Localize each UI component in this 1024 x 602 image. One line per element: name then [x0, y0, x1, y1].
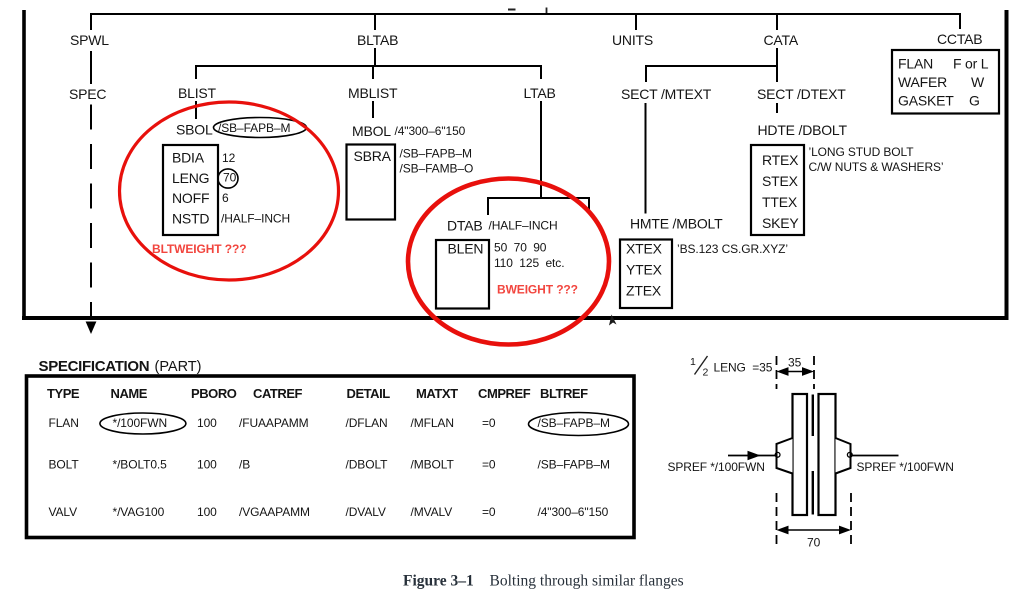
box SBRA	[347, 145, 396, 220]
svg-text:2: 2	[703, 367, 709, 379]
svg-text:100: 100	[197, 458, 217, 472]
arrow below box	[86, 322, 97, 335]
ellipse around /SB-FAPB-M	[214, 118, 307, 138]
svg-text:ZTEX: ZTEX	[626, 283, 662, 299]
svg-text:100: 100	[197, 505, 217, 519]
svg-text:SPEC: SPEC	[69, 86, 106, 102]
svg-text:BWEIGHT ???: BWEIGHT ???	[497, 283, 578, 297]
svg-text:100: 100	[197, 416, 217, 430]
big enclosing box left edge	[22, 10, 26, 318]
left hub trapezoid	[777, 438, 793, 474]
svg-text:35: 35	[788, 356, 802, 370]
wire MBLIST to MBOL	[372, 101, 374, 118]
dim 70 extension lines dashed	[776, 493, 778, 545]
svg-text:SECT /DTEXT: SECT /DTEXT	[757, 86, 846, 102]
svg-text:*/VAG100: */VAG100	[113, 505, 165, 519]
gasket bolt line upper	[812, 395, 814, 437]
svg-text:NOFF: NOFF	[172, 190, 209, 206]
box XTEX/YTEX/ZTEX	[620, 240, 672, 309]
svg-text:=0: =0	[482, 458, 496, 472]
svg-text:’BS.123 CS.GR.XYZ’: ’BS.123 CS.GR.XYZ’	[677, 242, 788, 256]
svg-text:CCTAB: CCTAB	[937, 31, 982, 47]
wire LTAB long drop	[540, 101, 542, 198]
svg-text:/FUAAPAMM: /FUAAPAMM	[239, 416, 309, 430]
box CCTAB key	[892, 50, 999, 114]
svg-text:FLAN: FLAN	[898, 56, 933, 72]
svg-text:1: 1	[690, 356, 696, 368]
stray tick artifact top	[546, 8, 548, 14]
svg-text:BLTWEIGHT ???: BLTWEIGHT ???	[152, 242, 246, 256]
svg-text:UNITS: UNITS	[612, 32, 653, 48]
svg-text:SECT /MTEXT: SECT /MTEXT	[621, 86, 712, 102]
svg-text:BLTREF: BLTREF	[540, 386, 588, 401]
wire SPEC dashed down	[90, 105, 92, 317]
wire drop MBLIST	[372, 66, 374, 79]
right leader line	[851, 455, 899, 457]
table box	[27, 376, 635, 538]
svg-text:HMTE /MBOLT: HMTE /MBOLT	[630, 216, 723, 232]
svg-text:SBOL: SBOL	[176, 122, 213, 138]
svg-text:/4"300–6"150: /4"300–6"150	[538, 505, 609, 519]
svg-text:=0: =0	[482, 505, 496, 519]
svg-text:DETAIL: DETAIL	[347, 386, 391, 401]
svg-text:F or L: F or L	[953, 56, 989, 72]
box RTEX/STEX/TTEX/SKEY	[751, 145, 804, 235]
svg-text:SPREF */100FWN: SPREF */100FWN	[857, 460, 954, 474]
svg-text:/DFLAN: /DFLAN	[346, 416, 388, 430]
svg-text:SPECIFICATION: SPECIFICATION	[39, 358, 150, 375]
wire SPWL to SPEC dashed	[90, 51, 92, 84]
wire BLIST to SBOL	[195, 101, 197, 119]
box BLEN	[436, 240, 489, 309]
stray dash artifact top	[508, 9, 516, 11]
svg-text:BLEN: BLEN	[448, 241, 484, 257]
svg-text:BOLT: BOLT	[49, 458, 80, 472]
svg-text:/HALF–INCH: /HALF–INCH	[489, 219, 558, 233]
svg-text:(PART): (PART)	[155, 359, 202, 375]
wire DTEXT to HDTE	[776, 103, 778, 113]
svg-text:/SB–FAPB–M: /SB–FAPB–M	[538, 458, 610, 472]
dim 35 extension lines dashed	[776, 356, 778, 389]
svg-text:VALV: VALV	[49, 505, 78, 519]
svg-text:SPREF */100FWN: SPREF */100FWN	[668, 460, 765, 474]
svg-text:/SB–FAPB–M: /SB–FAPB–M	[218, 121, 290, 135]
svg-text:BLTAB: BLTAB	[357, 32, 398, 48]
svg-text:BDIA: BDIA	[172, 150, 205, 166]
top rail wire	[91, 14, 960, 30]
svg-text:/SB–FAPB–M: /SB–FAPB–M	[538, 416, 610, 430]
ellipse around */100FWN	[100, 413, 186, 434]
svg-text:/HALF–INCH: /HALF–INCH	[221, 212, 290, 226]
svg-text:CATREF: CATREF	[253, 386, 303, 401]
svg-text:FLAN: FLAN	[49, 416, 79, 430]
svg-text:SBRA: SBRA	[354, 148, 392, 164]
svg-text:CMPREF: CMPREF	[478, 386, 531, 401]
svg-text:RTEX: RTEX	[762, 152, 799, 168]
wire MTEXT to HMTE long	[645, 103, 647, 214]
svg-text:Bolting through similar flange: Bolting through similar flanges	[490, 573, 684, 590]
svg-text:BLIST: BLIST	[178, 85, 217, 101]
attribute box BDIA/LENG/NOFF/NSTD	[163, 145, 218, 235]
svg-text:6: 6	[222, 191, 229, 205]
svg-text:/SB–FAPB–M: /SB–FAPB–M	[400, 147, 472, 161]
wire drop CATA	[776, 14, 778, 30]
svg-text:TTEX: TTEX	[762, 194, 798, 210]
flange drawing: half-length label	[695, 356, 708, 375]
right hub trapezoid	[836, 438, 851, 474]
svg-text:PBORO: PBORO	[191, 386, 237, 401]
left bolt circle	[775, 452, 780, 457]
svg-text:70: 70	[223, 171, 237, 185]
right flange plate	[819, 394, 836, 515]
svg-text:SKEY: SKEY	[762, 215, 799, 231]
svg-text:50 70 90: 50 70 90	[494, 241, 547, 255]
svg-text:/DVALV: /DVALV	[346, 505, 386, 519]
red circle 2	[408, 179, 609, 345]
dim 35 arrows	[779, 371, 812, 373]
svg-text:NSTD: NSTD	[172, 211, 209, 227]
svg-text:/4"300–6"150: /4"300–6"150	[395, 124, 466, 138]
svg-text:C/W NUTS & WASHERS’: C/W NUTS & WASHERS’	[809, 160, 944, 174]
circle around 70	[218, 169, 238, 188]
svg-text:=0: =0	[482, 416, 496, 430]
svg-text:*/100FWN: */100FWN	[113, 416, 168, 430]
left leader line with arrow	[728, 455, 776, 457]
svg-text:/SB–FAMB–O: /SB–FAMB–O	[400, 162, 474, 176]
svg-text:NAME: NAME	[111, 386, 148, 401]
svg-text:MATXT: MATXT	[416, 386, 458, 401]
svg-text:12: 12	[222, 151, 236, 165]
svg-text:STEX: STEX	[762, 173, 799, 189]
svg-text:70: 70	[807, 536, 821, 550]
dim 70 arrows	[779, 529, 849, 531]
svg-text:MBLIST: MBLIST	[348, 85, 398, 101]
svg-text:YTEX: YTEX	[626, 262, 663, 278]
red circle 1	[120, 102, 339, 280]
gasket bolt line lower	[812, 471, 814, 515]
left flange plate	[793, 394, 808, 515]
svg-text:HDTE /DBOLT: HDTE /DBOLT	[758, 122, 848, 138]
svg-text:LENG =35: LENG =35	[714, 361, 773, 375]
svg-text:GASKET: GASKET	[898, 93, 954, 109]
svg-text:W: W	[971, 74, 985, 90]
svg-text:/DBOLT: /DBOLT	[346, 458, 389, 472]
big enclosing box right edge	[1005, 10, 1009, 318]
svg-text:/MVALV: /MVALV	[411, 505, 453, 519]
rail2 wire BLIST-MBLIST-LTAB	[196, 66, 541, 79]
svg-text:*/BOLT0.5: */BOLT0.5	[113, 458, 168, 472]
wire elbow under LTAB	[488, 198, 589, 215]
svg-text:/VGAAPAMM: /VGAAPAMM	[239, 505, 310, 519]
svg-text:G: G	[969, 93, 980, 109]
right bolt circle	[847, 452, 852, 457]
svg-text:LTAB: LTAB	[524, 85, 556, 101]
svg-text:Figure 3–1: Figure 3–1	[403, 573, 474, 590]
svg-text:/B: /B	[239, 458, 250, 472]
svg-text:WAFER: WAFER	[898, 74, 947, 90]
big enclosing box bottom edge	[22, 316, 1009, 320]
wire BLTAB down to rail2	[374, 48, 376, 66]
wire CATA down	[776, 48, 778, 66]
svg-text:’LONG STUD BOLT: ’LONG STUD BOLT	[809, 145, 915, 159]
svg-text:/MFLAN: /MFLAN	[411, 416, 454, 430]
svg-text:/MBOLT: /MBOLT	[411, 458, 455, 472]
svg-text:SPWL: SPWL	[70, 32, 109, 48]
svg-text:LENG: LENG	[172, 170, 209, 186]
svg-text:MBOL: MBOL	[352, 123, 391, 139]
wire drop UNITS	[635, 14, 637, 30]
wire drop BLTAB	[374, 14, 376, 30]
svg-text:TYPE: TYPE	[47, 386, 80, 401]
rail3 wire under CATA	[646, 66, 777, 82]
cursor artifact on bottom edge	[609, 315, 617, 326]
svg-text:110 125 etc.: 110 125 etc.	[494, 256, 564, 270]
svg-text:DTAB: DTAB	[447, 218, 483, 234]
svg-text:CATA: CATA	[764, 32, 799, 48]
ellipse around /SB-FAPB-M	[529, 413, 629, 436]
svg-text:XTEX: XTEX	[626, 241, 663, 257]
